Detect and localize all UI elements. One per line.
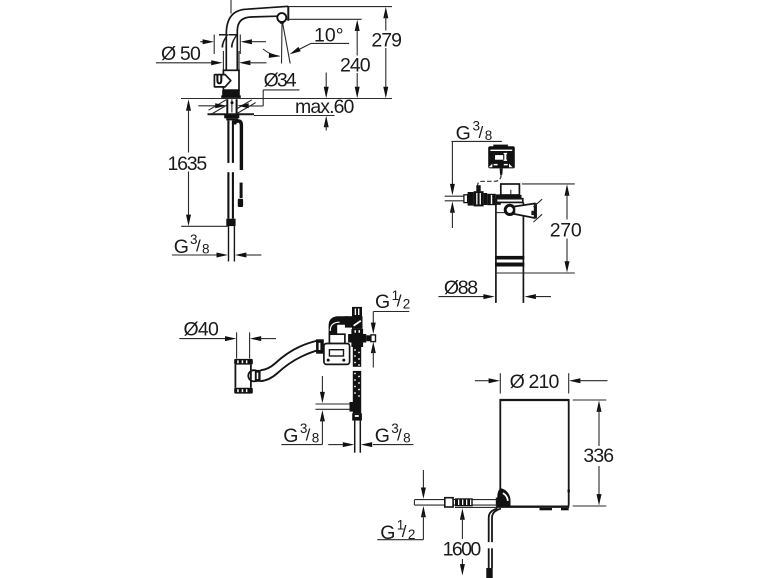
svg-text:8: 8 bbox=[312, 431, 320, 446]
svg-text:/: / bbox=[196, 237, 201, 256]
svg-text:8: 8 bbox=[403, 431, 411, 446]
svg-text:77: 77 bbox=[218, 31, 238, 53]
svg-text:Ø34: Ø34 bbox=[264, 69, 297, 91]
svg-text:/: / bbox=[402, 522, 407, 541]
svg-text:336: 336 bbox=[583, 445, 614, 467]
svg-text:270: 270 bbox=[550, 219, 582, 241]
svg-text:/: / bbox=[306, 426, 311, 445]
svg-text:Ø40: Ø40 bbox=[184, 319, 220, 341]
svg-text:279: 279 bbox=[371, 30, 402, 52]
svg-text:8: 8 bbox=[202, 241, 210, 256]
svg-text:/: / bbox=[397, 292, 402, 311]
svg-text:/: / bbox=[397, 426, 402, 445]
svg-text:G: G bbox=[283, 425, 298, 447]
svg-text:G: G bbox=[375, 291, 390, 313]
svg-text:2: 2 bbox=[403, 296, 411, 311]
svg-text:G: G bbox=[375, 425, 390, 447]
svg-text:Ø 210: Ø 210 bbox=[510, 371, 560, 393]
svg-text:240: 240 bbox=[340, 54, 371, 76]
svg-text:1600: 1600 bbox=[443, 539, 482, 561]
svg-text:G: G bbox=[380, 522, 395, 544]
svg-text:/: / bbox=[479, 123, 484, 142]
svg-text:8: 8 bbox=[485, 128, 493, 143]
svg-text:Ø 50: Ø 50 bbox=[161, 43, 201, 65]
svg-text:max.60: max.60 bbox=[295, 96, 355, 118]
svg-text:Ø88: Ø88 bbox=[444, 277, 478, 299]
svg-text:1635: 1635 bbox=[168, 153, 208, 175]
